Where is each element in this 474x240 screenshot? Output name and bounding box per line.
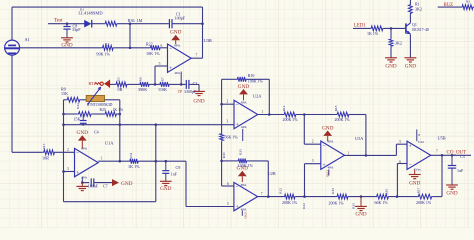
svg-text:4PA: 4PA — [174, 71, 180, 75]
svg-text:66K 1%: 66K 1% — [375, 200, 389, 205]
wire divider 200K top — [283, 112, 297, 117]
red rotated label under U5A — [328, 169, 330, 175]
svg-text:1nF: 1nF — [171, 172, 178, 177]
wire U2A minus — [222, 103, 234, 105]
svg-text:8PA: 8PA — [241, 101, 247, 105]
wire — [128, 83, 139, 85]
op-amp U5B — [407, 141, 431, 169]
resistor R12 200K — [284, 194, 297, 199]
svg-text:+: + — [323, 164, 326, 169]
svg-text:GND: GND — [322, 125, 334, 131]
wire — [170, 83, 186, 85]
svg-text:GND: GND — [77, 130, 89, 136]
wire U2A output — [258, 114, 283, 116]
resistor R20 partial — [461, 5, 474, 10]
svg-text:390K: 390K — [138, 87, 147, 92]
svg-text:−: − — [236, 186, 239, 191]
svg-text:3: 3 — [67, 167, 69, 171]
svg-text:U5B: U5B — [438, 135, 446, 140]
ground chain tap — [360, 197, 362, 207]
op-amp U3B — [168, 44, 192, 72]
svg-text:GND: GND — [409, 180, 420, 186]
wire C7 to gnd arrow — [94, 182, 112, 184]
ground port U3B power — [171, 35, 180, 40]
wire top feedback rail — [12, 6, 203, 8]
svg-text:2: 2 — [312, 139, 314, 143]
svg-text:200K 1%: 200K 1% — [416, 200, 432, 205]
resistor R8 1K — [370, 26, 384, 31]
wire A1 to R2 — [20, 47, 102, 49]
svg-text:R18: R18 — [334, 105, 338, 111]
svg-text:R11: R11 — [76, 103, 80, 109]
ground port below C7 junction — [81, 183, 83, 187]
wire Q1 emitter to gnd — [409, 34, 411, 57]
resistor R16 66K — [376, 194, 390, 199]
svg-text:−: − — [236, 104, 239, 109]
wire LED1 net — [353, 27, 370, 29]
junction divider — [129, 47, 132, 50]
svg-text:5: 5 — [227, 202, 229, 206]
svg-text:2: 2 — [227, 100, 229, 104]
svg-text:U1A: U1A — [105, 141, 114, 146]
ground arrow port — [112, 179, 119, 186]
capacitor C2 3300pF — [185, 80, 187, 89]
wire U1A loop bottom — [64, 201, 156, 203]
ground for C3 — [446, 184, 458, 186]
svg-text:GND: GND — [237, 166, 249, 172]
svg-text:GND: GND — [238, 84, 250, 90]
transistor Q1 BC817-40 — [405, 23, 407, 33]
svg-text:8PA: 8PA — [81, 147, 87, 151]
junction R2 divider tap — [129, 22, 132, 25]
svg-text:C7: C7 — [103, 183, 108, 188]
svg-text:200K 1%: 200K 1% — [282, 200, 298, 205]
svg-text:C4: C4 — [94, 129, 99, 134]
wire 3K2 to gnd — [390, 47, 392, 58]
svg-text:GND: GND — [446, 191, 457, 197]
svg-text:A1: A1 — [25, 37, 30, 42]
svg-text:1uF: 1uF — [457, 168, 464, 173]
svg-text:4PA: 4PA — [328, 166, 334, 170]
op-amp U2A — [234, 100, 258, 128]
wire to U2B — [185, 161, 187, 206]
wire divider vertical — [129, 24, 131, 48]
wire R13 to U1A — [56, 151, 75, 153]
wire 100K to U2B out — [222, 160, 238, 162]
wire vertical x121 — [119, 100, 121, 161]
wire — [390, 196, 418, 198]
svg-text:3: 3 — [312, 159, 314, 163]
capacitor C4 — [82, 115, 84, 120]
svg-text:R22: R22 — [146, 41, 153, 46]
svg-text:U3B: U3B — [204, 38, 212, 43]
svg-text:200K 1%: 200K 1% — [329, 200, 345, 205]
svg-text:−: − — [76, 152, 79, 157]
wire output net — [139, 160, 186, 162]
svg-text:Test: Test — [54, 18, 63, 24]
svg-text:7: 7 — [436, 150, 438, 154]
wire — [349, 196, 376, 198]
wire 56K down — [221, 141, 223, 186]
wire BUZ net — [438, 6, 461, 8]
svg-text:0R: 0R — [118, 87, 123, 92]
svg-text:1K 1%: 1K 1% — [128, 164, 140, 169]
ground for C9 — [160, 180, 172, 182]
svg-text:C2: C2 — [193, 81, 198, 86]
svg-text:6: 6 — [399, 160, 401, 164]
wire U3B output — [191, 57, 202, 59]
svg-text:GND: GND — [355, 212, 366, 218]
svg-text:1: 1 — [101, 157, 103, 161]
svg-text:56K 1%: 56K 1% — [225, 134, 239, 139]
svg-text:C9: C9 — [176, 165, 181, 170]
ground Q1 — [405, 57, 417, 59]
ground port U2A power — [239, 89, 248, 94]
svg-text:8: 8 — [418, 133, 420, 137]
wire corner to cross — [118, 113, 120, 115]
wire to U2B minus — [222, 185, 234, 187]
svg-text:+: + — [236, 123, 239, 128]
wire U2A bottom power stub — [242, 129, 244, 141]
svg-text:U5A: U5A — [355, 136, 364, 141]
svg-text:R13: R13 — [42, 143, 46, 149]
svg-text:TP: TP — [178, 90, 182, 94]
svg-text:7: 7 — [261, 192, 263, 196]
svg-text:GND: GND — [405, 64, 416, 70]
resistor R36 1M — [104, 21, 118, 26]
wire U1A plus — [64, 171, 75, 173]
ground for C8 — [61, 37, 73, 39]
junction gnd tap — [360, 195, 363, 198]
wire — [150, 83, 159, 85]
svg-text:100pF: 100pF — [175, 15, 186, 20]
resistor R5 0R — [115, 82, 128, 87]
junction feedback corner — [201, 22, 204, 25]
op-amp U2B — [234, 182, 258, 210]
svg-text:+: + — [236, 205, 239, 210]
svg-text:LED1: LED1 — [354, 23, 366, 28]
resistor R31 1K — [129, 159, 139, 164]
wire R1 to Q1 collector — [409, 14, 411, 23]
wire C2 to gnd corner — [189, 83, 199, 85]
wire A1 bottom rail — [11, 55, 13, 152]
svg-text:15K: 15K — [61, 91, 68, 96]
svg-text:3: 3 — [227, 120, 229, 124]
svg-text:6: 6 — [161, 44, 163, 48]
capacitor C8 33pF — [66, 24, 68, 26]
svg-text:R35: R35 — [238, 149, 242, 155]
junction C8 tap — [66, 22, 69, 25]
wire U3B bottom power pin — [180, 72, 182, 85]
wire U5B output — [431, 154, 471, 156]
resistor R26 1K — [104, 112, 118, 117]
resistor R2 99K — [102, 45, 115, 50]
svg-text:+: + — [409, 144, 412, 149]
resistor R19 3K2 — [390, 28, 392, 38]
svg-text:15K: 15K — [74, 116, 81, 121]
svg-text:200K 1%: 200K 1% — [283, 117, 299, 122]
svg-text:6: 6 — [227, 182, 229, 186]
svg-text:R30: R30 — [222, 152, 226, 158]
svg-text:−: − — [409, 164, 412, 169]
svg-text:C3: C3 — [460, 154, 465, 159]
svg-text:R25: R25 — [100, 108, 106, 112]
svg-text:R7: R7 — [161, 77, 165, 81]
wire U5B top power stub — [416, 130, 418, 142]
wire chain start — [110, 83, 115, 85]
wire net B — [64, 113, 78, 115]
svg-text:110K: 110K — [158, 87, 167, 92]
svg-text:100nF: 100nF — [88, 184, 99, 189]
wire — [296, 196, 336, 198]
wire to U5B plus — [395, 144, 397, 155]
svg-text:R12: R12 — [279, 188, 283, 194]
capacitor C3 1uF — [451, 155, 453, 165]
svg-text:R6: R6 — [139, 77, 143, 81]
svg-text:8PA: 8PA — [241, 183, 247, 187]
svg-text:R10: R10 — [248, 73, 255, 78]
junction base divider — [390, 27, 393, 30]
svg-text:8PA: 8PA — [328, 140, 334, 144]
wire C1 to corner — [172, 23, 202, 25]
ground port U5A power — [323, 131, 332, 136]
svg-text:10R: 10R — [42, 156, 49, 161]
wire NTC to corner — [105, 99, 120, 101]
junction feedback — [365, 154, 368, 157]
wire feedback vertical — [202, 7, 204, 58]
svg-text:3K2: 3K2 — [415, 6, 422, 11]
svg-text:R15: R15 — [331, 188, 335, 194]
wire Test node — [48, 23, 85, 25]
resistor R33 56K — [220, 133, 224, 141]
wire U2B bottom power stub — [241, 211, 243, 216]
diode D1 LL4148SMD — [84, 20, 91, 28]
svg-text:R2: R2 — [105, 42, 110, 47]
wire R36 to C1 — [118, 23, 169, 25]
wire — [92, 113, 104, 115]
svg-text:U2A: U2A — [253, 94, 262, 99]
resistor R22 10K — [150, 45, 162, 50]
resistor 200K top second — [336, 112, 350, 117]
junction U3B power tap — [180, 83, 183, 86]
wire R10 right vertical — [268, 79, 270, 114]
capacitor C7 100nF — [90, 178, 92, 186]
junction pin5 tap — [154, 83, 157, 86]
svg-text:200K 1%: 200K 1% — [335, 117, 351, 122]
svg-text:Vdd: Vdd — [418, 140, 424, 144]
svg-text:−: − — [169, 47, 172, 52]
wire R2 to R22 — [114, 47, 149, 49]
resistor R13 10R — [43, 150, 56, 155]
capacitor C9 1nF — [165, 161, 167, 170]
wire to U5B minus — [397, 163, 407, 165]
wire diode to R36 — [92, 23, 104, 25]
svg-text:GND: GND — [121, 181, 133, 187]
svg-text:GND: GND — [160, 186, 171, 192]
ground port U5B power — [414, 170, 416, 175]
wire U3B plus input — [155, 65, 168, 67]
svg-text:1K 1%: 1K 1% — [367, 31, 379, 36]
svg-text:R16: R16 — [385, 189, 389, 195]
svg-text:1M: 1M — [137, 18, 143, 23]
svg-text:GND: GND — [385, 64, 396, 70]
svg-text:1: 1 — [262, 110, 264, 114]
svg-text:99K 1%: 99K 1% — [96, 51, 110, 56]
thermistor RT1 NTC0805 — [86, 95, 104, 101]
wire to base — [384, 27, 406, 29]
wire U1A bottom power — [81, 177, 83, 183]
svg-text:R36: R36 — [128, 18, 135, 23]
svg-text:R17: R17 — [417, 187, 421, 193]
wire net to U2A plus — [64, 124, 235, 126]
svg-text:4PA: 4PA — [241, 125, 247, 129]
wire U1A output — [98, 160, 129, 162]
svg-text:R5: R5 — [117, 77, 121, 81]
svg-text:1: 1 — [348, 151, 350, 155]
svg-text:3K2: 3K2 — [395, 41, 402, 46]
svg-text:5: 5 — [399, 140, 401, 144]
ground base resistor — [385, 57, 397, 59]
svg-text:+: + — [169, 67, 172, 72]
svg-text:U2B: U2B — [268, 171, 276, 176]
wire 200K up to U5B out — [433, 196, 442, 198]
junction — [268, 113, 271, 116]
capacitor C1 100pF — [168, 19, 170, 28]
microphone A1 — [5, 40, 20, 55]
svg-text:+: + — [76, 171, 79, 176]
wire A1 top pin — [11, 7, 13, 40]
svg-text:GND: GND — [244, 212, 248, 220]
resistor R15 200K — [336, 194, 349, 199]
wire vertical x155 — [155, 125, 157, 202]
ground port U1A power — [78, 135, 87, 140]
resistor R10 100K feedback — [222, 78, 237, 80]
wire to R13 — [12, 151, 43, 153]
svg-text:R15: R15 — [352, 203, 356, 209]
svg-text:R2: R2 — [466, 0, 470, 3]
ground port U2B power — [238, 171, 247, 176]
svg-text:LL4148SMD: LL4148SMD — [78, 10, 103, 15]
svg-text:33pF: 33pF — [72, 27, 81, 32]
svg-text:RT?: RT? — [89, 81, 96, 86]
wire U5A plus from chain — [305, 163, 321, 165]
wire divider mid to U5A minus — [303, 115, 305, 145]
svg-text:BC817-40: BC817-40 — [412, 27, 429, 32]
svg-text:R?NTC0805K3D: R?NTC0805K3D — [87, 103, 113, 107]
resistor R17 200K — [417, 194, 433, 199]
resistor R11 15K — [77, 112, 92, 117]
svg-text:8PA: 8PA — [174, 44, 180, 48]
svg-text:R12: R12 — [302, 203, 306, 209]
svg-text:R31: R31 — [129, 153, 133, 159]
wire U5A output — [345, 154, 397, 156]
wire U2B output chain — [258, 196, 284, 198]
resistor R6 390K — [139, 82, 150, 87]
wire left rail — [63, 100, 65, 202]
wire feedback vertical x365 — [365, 115, 367, 156]
resistor R35 100K — [238, 159, 248, 164]
ground chain — [193, 90, 205, 92]
op-amp U5A — [321, 141, 345, 169]
svg-text:R14: R14 — [282, 105, 286, 111]
svg-text:GND: GND — [193, 98, 204, 104]
svg-text:GND: GND — [326, 170, 330, 178]
svg-text:2: 2 — [67, 148, 69, 152]
svg-text:GND: GND — [170, 30, 182, 36]
wire R10 left vertical — [221, 79, 223, 133]
resistor R1 3K2 — [409, 0, 411, 4]
svg-text:10K 1%: 10K 1% — [146, 51, 160, 56]
resistor R7 110K — [159, 82, 170, 87]
wire R22 to U3B — [161, 47, 168, 49]
svg-text:7: 7 — [196, 53, 198, 57]
op-amp U1A — [75, 148, 99, 176]
svg-text:−: − — [323, 144, 326, 149]
